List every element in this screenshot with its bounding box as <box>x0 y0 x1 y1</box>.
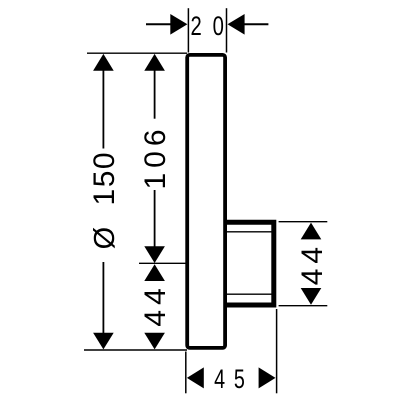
extension line top left <box>87 52 187 54</box>
extension line 20 left vertical <box>187 8 189 52</box>
dimension line O150 lower stem <box>102 262 104 334</box>
dimension line O150 upper stem <box>102 70 104 149</box>
dimension line 106 lower stem <box>154 190 156 248</box>
svg-text:106: 106 <box>139 124 172 189</box>
extension line 20 right vertical <box>226 8 228 52</box>
dimension text 45 <box>214 365 245 395</box>
extension line 44 right top <box>279 221 328 223</box>
valve box protrusion <box>225 222 274 305</box>
dimension 106 down arrowhead <box>144 246 165 263</box>
dimension 44 right down arrowhead <box>301 288 322 305</box>
dimension 45 right arrowhead <box>259 367 276 388</box>
dimension 45 left arrowhead <box>187 367 204 388</box>
dimension 106 up arrowhead <box>144 54 165 71</box>
dimension 44 left down arrowhead <box>144 333 165 350</box>
dimension 20 right arrowhead <box>228 14 245 35</box>
dimension O150 up arrowhead <box>93 54 114 71</box>
svg-text:44: 44 <box>296 242 329 285</box>
extension line 44 right bottom <box>279 305 328 307</box>
dimension 20 left arrow tail <box>146 23 171 25</box>
plate outline (front escutcheon, side view) <box>187 55 225 348</box>
dimension 44 left up arrowhead <box>144 264 165 281</box>
box inner line bottom <box>227 293 273 295</box>
svg-text:150: 150 <box>88 151 121 206</box>
svg-text:44: 44 <box>139 283 172 326</box>
extension line 45 left vertical <box>185 352 187 394</box>
dimension 20 right arrow tail <box>244 23 268 25</box>
svg-text:Ø: Ø <box>89 227 121 250</box>
box inner line top <box>227 231 273 233</box>
dimension text 20 <box>191 11 224 42</box>
dimension 44 right up arrowhead <box>301 223 322 240</box>
dimension O150 down arrowhead <box>93 333 114 350</box>
dimension 20 left arrowhead <box>170 14 187 35</box>
extension line 45 right vertical <box>276 309 278 393</box>
extension line bottom left <box>84 349 187 351</box>
extension line middle left <box>139 262 187 264</box>
dimension line 106 upper stem <box>154 70 156 119</box>
